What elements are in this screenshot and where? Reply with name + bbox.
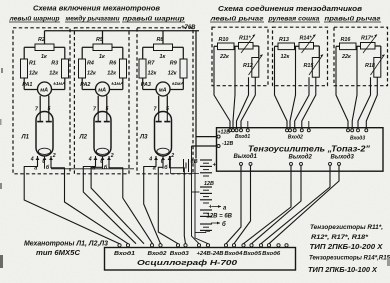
svg-text:R16: R16: [341, 37, 352, 43]
svg-text:5: 5: [166, 106, 169, 112]
svg-text:12В = 6В: 12В = 6В: [207, 214, 233, 220]
svg-text:Л1: Л1: [21, 135, 30, 141]
svg-text:правый рычаг: правый рычаг: [325, 15, 382, 22]
svg-text:+: +: [209, 205, 213, 211]
svg-text:12В: 12В: [204, 181, 214, 187]
svg-text:R13: R13: [279, 37, 289, 43]
svg-text:РА2: РА2: [80, 82, 90, 88]
svg-text:4: 4: [88, 157, 92, 163]
svg-text:Вход4: Вход4: [224, 251, 242, 257]
svg-text:R12: R12: [243, 63, 253, 69]
svg-text:б: б: [222, 221, 226, 228]
svg-text:Механотроны Л1, Л2,Л3: Механотроны Л1, Л2,Л3: [24, 238, 108, 247]
svg-text:R12*, R17*, R18*: R12*, R17*, R18*: [311, 234, 368, 241]
svg-text:R15: R15: [304, 63, 315, 69]
svg-text:5: 5: [106, 106, 109, 112]
svg-text:тип 6МХ5С: тип 6МХ5С: [36, 248, 81, 257]
svg-text:Вход2: Вход2: [288, 134, 303, 140]
svg-text:+76В: +76В: [181, 25, 196, 31]
svg-text:−: −: [207, 230, 211, 236]
svg-text:12к: 12к: [87, 71, 96, 77]
svg-text:R2: R2: [38, 37, 45, 43]
svg-text:4: 4: [30, 157, 34, 163]
svg-text:мА: мА: [40, 88, 48, 94]
svg-text:Вход5: Вход5: [243, 251, 261, 257]
svg-text:12к: 12к: [107, 71, 116, 77]
svg-text:4: 4: [148, 157, 152, 163]
svg-text:12к: 12к: [29, 71, 38, 77]
svg-text:Вход1: Вход1: [235, 134, 250, 140]
svg-text:Выход3: Выход3: [331, 155, 355, 161]
svg-text:R7: R7: [148, 61, 156, 67]
svg-text:+12В: +12В: [218, 130, 231, 136]
svg-text:±1мА: ±1мА: [111, 81, 124, 87]
svg-text:12к: 12к: [168, 71, 177, 77]
svg-text:22к: 22к: [219, 54, 229, 60]
svg-text:+: +: [213, 163, 217, 169]
svg-text:мА: мА: [98, 88, 106, 94]
svg-text:-12В: -12В: [222, 141, 233, 147]
svg-text:R6: R6: [109, 61, 117, 67]
svg-text:+24В-24В: +24В-24В: [197, 251, 224, 257]
svg-text:2: 2: [52, 153, 56, 159]
svg-text:ТИП 2ПКБ-10-100 Х: ТИП 2ПКБ-10-100 Х: [308, 265, 378, 274]
svg-text:22к: 22к: [341, 54, 351, 60]
svg-text:Л2: Л2: [79, 135, 88, 141]
svg-text:±1мА: ±1мА: [172, 81, 185, 87]
svg-text:R10: R10: [219, 37, 229, 43]
svg-text:R8: R8: [157, 37, 164, 43]
svg-text:Вход3: Вход3: [170, 251, 189, 257]
svg-text:R11*: R11*: [239, 36, 251, 42]
svg-text:Л3: Л3: [139, 135, 148, 141]
svg-text:правый шарнир: правый шарнир: [123, 15, 185, 22]
svg-text:R5: R5: [96, 37, 104, 43]
svg-text:2: 2: [110, 153, 114, 159]
svg-text:РА1: РА1: [22, 82, 32, 88]
svg-text:Вход2: Вход2: [148, 251, 167, 257]
svg-text:Вход6: Вход6: [262, 251, 280, 257]
svg-text:12к: 12к: [148, 71, 157, 77]
svg-text:Выход1: Выход1: [234, 154, 258, 160]
svg-text:Тензорезисторы R14*,R15: Тензорезисторы R14*,R15: [309, 255, 390, 262]
svg-text:1к: 1к: [41, 54, 47, 60]
svg-text:левый рычаг: левый рычаг: [209, 15, 264, 22]
svg-text:R18: R18: [365, 63, 375, 69]
svg-text:1к: 1к: [99, 54, 105, 60]
svg-text:левый шарнир: левый шарнир: [8, 15, 59, 22]
svg-text:12к: 12к: [49, 71, 58, 77]
svg-text:Вход3: Вход3: [350, 135, 365, 141]
svg-text:R3: R3: [51, 61, 58, 67]
svg-text:R1: R1: [29, 61, 36, 67]
svg-text:РА3: РА3: [141, 82, 151, 88]
svg-text:1к: 1к: [160, 54, 166, 60]
svg-text:Тензорезисторы R11*,: Тензорезисторы R11*,: [310, 224, 383, 231]
svg-text:±1мА: ±1мА: [53, 81, 66, 87]
svg-text:мА: мА: [159, 88, 167, 94]
svg-text:Тензоусилитель „Топаз-2”: Тензоусилитель „Топаз-2”: [248, 143, 371, 153]
svg-text:Вход1: Вход1: [114, 251, 135, 257]
svg-text:Осциллограф Н-700: Осциллограф Н-700: [137, 258, 237, 267]
svg-text:рулевая сошка: рулевая сошка: [267, 15, 320, 22]
svg-text:6: 6: [42, 159, 45, 165]
svg-text:12к: 12к: [281, 54, 290, 60]
svg-text:R9: R9: [170, 61, 177, 67]
svg-text:Схема соединения тензодатчиков: Схема соединения тензодатчиков: [218, 4, 363, 13]
svg-text:Схема включения механотронов: Схема включения механотронов: [33, 4, 161, 13]
svg-text:5: 5: [48, 106, 51, 112]
svg-text:между рычагами: между рычагами: [66, 15, 120, 22]
svg-text:Выход2: Выход2: [289, 154, 313, 160]
svg-text:R4: R4: [87, 61, 94, 67]
svg-text:ТИП 2ПКБ-10-200 Х: ТИП 2ПКБ-10-200 Х: [310, 242, 384, 251]
